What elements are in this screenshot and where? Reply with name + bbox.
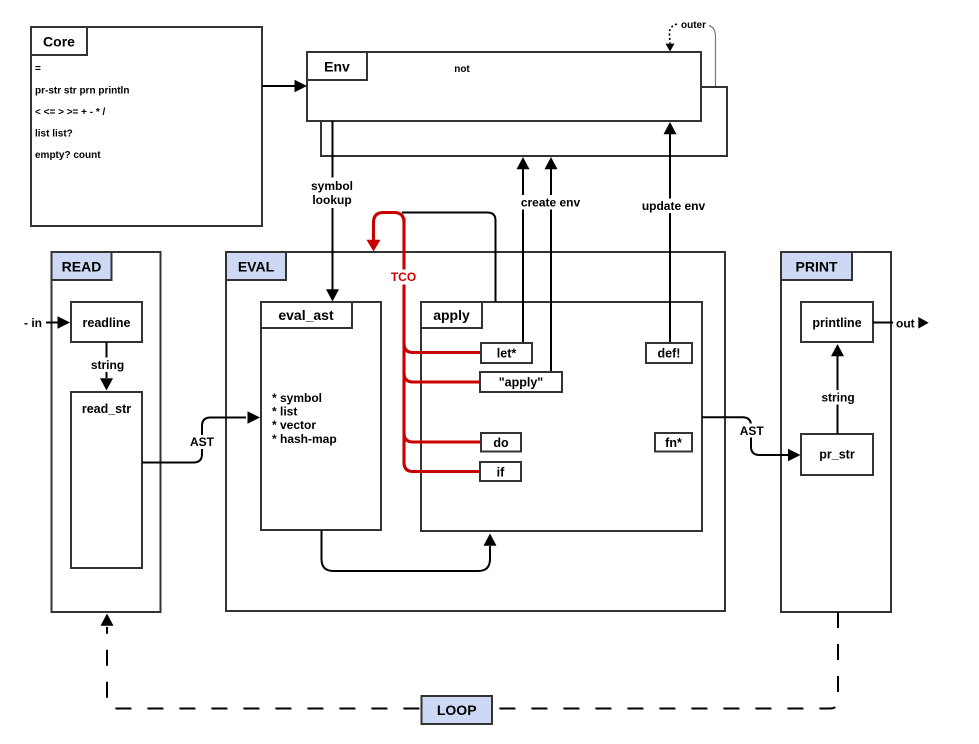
box def! [646,343,692,363]
svg-text:* hash-map: * hash-map [272,432,337,446]
label update env [640,199,707,214]
wire outer dotted arrow [666,24,678,52]
svg-text:string: string [91,358,124,372]
core function list [35,64,129,162]
svg-text:TCO: TCO [391,270,416,284]
svg-text:"apply": "apply" [499,376,544,390]
box apply-string [480,372,562,392]
svg-text:=: = [35,64,41,75]
svg-text:update env: update env [642,199,706,213]
svg-text:EVAL: EVAL [238,259,275,275]
wire dashed loop [101,612,839,709]
svg-text:not: not [454,64,470,75]
svg-text:list list?: list list? [35,129,73,140]
svg-text:apply: apply [433,307,470,323]
box Core [31,27,262,226]
box read_str [71,392,142,568]
box fn* [655,433,692,452]
svg-text:READ: READ [62,259,102,275]
svg-text:fn*: fn* [665,436,682,450]
svg-text:lookup: lookup [312,193,351,207]
box if [480,462,521,481]
svg-text:read_str: read_str [82,402,131,416]
svg-text:Core: Core [43,34,75,50]
wire out [873,316,929,330]
svg-text:pr_str: pr_str [819,448,855,462]
wire eval_ast bottom loop to apply [322,530,497,571]
box READ [52,252,161,612]
wire string arrow readline to read_str [90,342,126,391]
wire create env arrow from apply-string [545,157,558,372]
svg-text:LOOP: LOOP [437,702,477,718]
wire create env arrow from let* [517,157,530,343]
svg-text:AST: AST [740,424,765,438]
wire outer to back env thin line [709,26,716,87]
svg-text:if: if [497,466,505,480]
box Env outer (back) [321,87,727,156]
box pr_str [801,434,873,475]
wire symbol lookup arrow [309,121,356,302]
box PRINT [781,252,891,612]
label create env [519,195,582,210]
svg-text:let*: let* [497,347,517,361]
svg-text:outer: outer [681,20,706,31]
box printline [801,302,873,342]
svg-text:* list: * list [272,405,297,419]
svg-text:readline: readline [83,316,131,330]
box readline [71,302,142,342]
svg-text:* vector: * vector [272,418,316,432]
svg-text:create env: create env [521,196,581,210]
eval_ast items [272,391,337,446]
box Env front [307,52,701,121]
svg-text:- in: - in [24,316,42,330]
node in [24,316,70,330]
box EVAL [226,252,725,611]
box eval_ast [261,302,381,530]
svg-text:Env: Env [324,59,350,75]
svg-text:AST: AST [190,435,215,449]
wire AST apply to pr_str [702,417,801,461]
svg-text:PRINT: PRINT [796,259,838,275]
wire update env arrow [664,122,677,343]
svg-text:def!: def! [658,347,681,361]
svg-text:* symbol: * symbol [272,391,322,405]
svg-text:empty? count: empty? count [35,150,101,161]
svg-text:printline: printline [812,316,861,330]
box apply [421,302,702,531]
svg-text:string: string [821,391,854,405]
wire AST read_str to eval_ast [142,411,260,462]
svg-text:do: do [493,436,509,450]
wire TCO red loop arrow [367,213,481,472]
svg-text:eval_ast: eval_ast [278,307,334,323]
svg-text:out: out [896,316,915,330]
wire string arrow pr_str to printline [821,344,857,434]
svg-text:< <= > >= + - * /: < <= > >= + - * / [35,107,106,118]
wire black into apply top [402,213,496,303]
svg-text:symbol: symbol [311,179,353,193]
svg-text:pr-str str prn println: pr-str str prn println [35,86,129,97]
box do [481,433,521,452]
box let* [481,343,532,363]
wire Core to Env arrow [262,80,307,92]
box LOOP [422,696,493,724]
